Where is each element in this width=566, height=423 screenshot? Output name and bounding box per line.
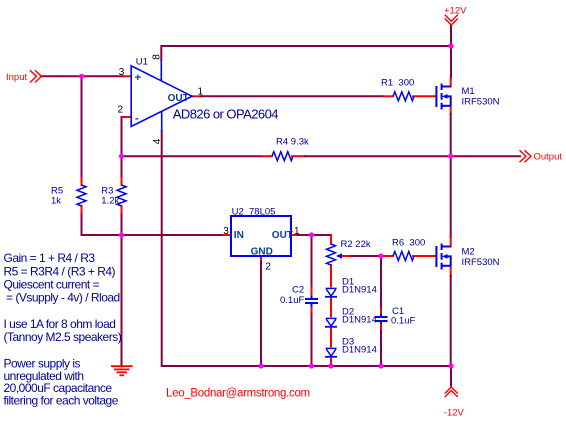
svg-text:D1N914: D1N914 — [342, 315, 377, 326]
node +12V junction — [448, 43, 453, 48]
svg-text:D1N914: D1N914 — [342, 345, 377, 356]
pin stub M1 source — [450, 106, 452, 114]
svg-text:(Tannoy M2.5 speakers): (Tannoy M2.5 speakers) — [4, 330, 122, 344]
svg-text:OUT: OUT — [168, 93, 189, 104]
svg-text:1: 1 — [198, 86, 204, 97]
pin stub R3 bottom — [121, 206, 123, 214]
wire M2 source to -12V rail — [450, 276, 452, 366]
wire opamp pin8 to +12V rail — [161, 46, 451, 60]
node U2 out junction — [309, 232, 314, 237]
svg-text:R5 = R3R4 / (R3 + R4): R5 = R3R4 / (R3 + R4) — [4, 264, 116, 278]
svg-text:1k: 1k — [51, 196, 61, 207]
pin stub D3 bottom — [330, 358, 332, 367]
wire -12V stub — [450, 366, 452, 386]
pin stub C2 bottom — [311, 307, 313, 314]
mosfet M1 — [436, 84, 450, 110]
node inverting junction — [119, 154, 124, 159]
pin stub C1 top — [380, 309, 382, 314]
svg-text:-: - — [135, 113, 139, 125]
wire C2 branch top — [311, 235, 313, 288]
diode D2 — [325, 318, 337, 326]
node -12V rail junction — [448, 363, 453, 368]
svg-text:U1: U1 — [136, 57, 148, 68]
svg-text:8: 8 — [152, 54, 163, 60]
pin stub U2 IN — [224, 234, 232, 236]
svg-text:Leo_Bodnar@armstrong.com: Leo_Bodnar@armstrong.com — [166, 388, 310, 400]
wire +12V drop — [450, 25, 452, 78]
pin stub R2 top — [330, 235, 332, 244]
wire gnd drop — [121, 235, 123, 366]
pin stub R2 wiper — [342, 255, 351, 257]
svg-text:R6 300: R6 300 — [392, 238, 425, 249]
connector Output — [520, 150, 532, 162]
capacitor C1 — [375, 314, 388, 325]
wire R3 from inverting node — [121, 156, 123, 178]
node D3 rail junction — [328, 363, 333, 368]
svg-text:0.1uF: 0.1uF — [391, 316, 415, 327]
connector Input — [30, 70, 42, 82]
wire output node down to M2 — [450, 156, 452, 237]
diode D1 — [325, 288, 337, 296]
wire wiper to junction — [351, 255, 381, 257]
svg-text:R2 22k: R2 22k — [341, 239, 371, 250]
potentiometer R2 — [327, 244, 343, 265]
wire R5 bottom to gnd line — [82, 214, 224, 235]
wire C2 bottom to rail — [311, 314, 313, 366]
svg-text:IRF530N: IRF530N — [462, 257, 500, 268]
svg-text:M1: M1 — [462, 86, 475, 97]
pin stub R2 bottom to D1 — [330, 265, 332, 286]
svg-text:Input: Input — [6, 72, 27, 83]
svg-text:I use 1A for 8 ohm load: I use 1A for 8 ohm load — [4, 317, 116, 331]
pin stub U2 OUT — [291, 234, 298, 236]
svg-text:3: 3 — [119, 67, 125, 78]
pin stub R6 right to M2 gate — [413, 255, 436, 257]
pin stub R4 left — [262, 155, 272, 157]
svg-text:1: 1 — [294, 226, 300, 237]
pin stub U2 GND — [260, 256, 262, 262]
resistor R1 — [393, 92, 414, 101]
node gnd line junction — [119, 232, 124, 237]
svg-text:Quiescent current =: Quiescent current = — [4, 278, 100, 292]
pin stub D2-D3 — [330, 328, 332, 347]
svg-text:2: 2 — [265, 262, 271, 273]
pin stub R6 left — [381, 255, 393, 257]
svg-text:OUT: OUT — [272, 230, 293, 241]
ground — [111, 366, 133, 375]
op-amp U1 — [131, 60, 192, 131]
node input junction — [79, 74, 84, 79]
wire input horizontal — [41, 75, 124, 77]
wire feedback line left segment — [122, 155, 263, 157]
svg-text:filtering for each voltage: filtering for each voltage — [4, 394, 119, 408]
wire pin2 down to feedback line — [121, 117, 123, 156]
svg-text:Output: Output — [534, 152, 563, 163]
svg-text:2: 2 — [118, 105, 124, 116]
svg-text:M2: M2 — [462, 247, 475, 258]
wire U2 OUT to R2 corner — [298, 234, 332, 236]
power -12V — [445, 387, 458, 397]
wire feedback line right segment — [305, 155, 451, 157]
svg-text:R1 300: R1 300 — [381, 78, 414, 89]
pin stub M2 source — [450, 266, 452, 276]
diode D3 — [325, 348, 337, 356]
wire C1 bottom to rail — [380, 331, 382, 366]
mosfet M2 — [436, 244, 450, 270]
svg-text:C2: C2 — [292, 285, 304, 296]
node C2 rail junction — [309, 363, 314, 368]
wire input junction down to R5 — [81, 76, 83, 178]
svg-text:4: 4 — [152, 138, 163, 144]
svg-text:GND: GND — [251, 247, 273, 258]
svg-text:IRF530N: IRF530N — [462, 97, 500, 108]
pin stub opamp pin2 — [122, 116, 132, 118]
pin stub opamp out — [192, 95, 201, 97]
node output junction — [448, 154, 453, 159]
resistor R4 — [272, 152, 293, 161]
pin stub C1 bottom — [380, 324, 382, 331]
wire C1 branch — [380, 256, 382, 309]
pin stub R3 top — [121, 178, 123, 185]
svg-text:1.2k: 1.2k — [101, 196, 119, 207]
wire opamp pin4 down and across bottom rail — [162, 131, 451, 366]
pin stub D1-D2 — [330, 298, 332, 317]
svg-text:IN: IN — [234, 230, 244, 241]
wire output to connector — [451, 155, 520, 157]
svg-text:+12V: +12V — [444, 5, 467, 16]
pin stub M2 drain — [450, 237, 452, 247]
svg-text:Gain = 1 + R4 / R3: Gain = 1 + R4 / R3 — [4, 251, 96, 265]
resistor R3 — [117, 185, 126, 206]
wire U2 GND down to rail — [260, 262, 262, 366]
pin stub opamp pin3 — [124, 75, 132, 77]
svg-text:R4 9.3k: R4 9.3k — [276, 137, 309, 148]
svg-text:= (Vsupply - 4v) / Rload: = (Vsupply - 4v) / Rload — [6, 291, 120, 305]
svg-text:0.1uF: 0.1uF — [280, 295, 304, 306]
node wiper junction — [378, 253, 383, 258]
wire R3 bottom to gnd node — [121, 214, 123, 235]
svg-text:-12V: -12V — [444, 408, 465, 419]
svg-text:AD826 or OPA2604: AD826 or OPA2604 — [173, 107, 278, 122]
pin stub R4 right — [292, 155, 305, 157]
power +12V — [445, 15, 458, 25]
pin stub R1 left — [383, 95, 393, 97]
svg-text:+: + — [135, 72, 141, 84]
svg-text:U2 78L05: U2 78L05 — [232, 207, 276, 218]
svg-text:D1N914: D1N914 — [342, 285, 377, 296]
capacitor C2 — [305, 296, 318, 307]
pin stub C2 top — [311, 288, 313, 296]
pin stub R5 top — [81, 178, 83, 185]
node C1 rail junction — [378, 363, 383, 368]
wire M1 source to output node — [450, 114, 452, 156]
node U2 gnd rail junction — [258, 363, 263, 368]
resistor R5 — [77, 185, 86, 206]
pin stub R1 right to M1 gate — [413, 95, 436, 97]
svg-text:3: 3 — [223, 226, 229, 237]
pin stub R5 bottom — [81, 206, 83, 214]
wire opamp out to R1 — [201, 95, 383, 97]
resistor R6 — [393, 252, 414, 261]
pin stub M1 drain — [450, 78, 452, 87]
regulator U2 — [231, 216, 291, 256]
